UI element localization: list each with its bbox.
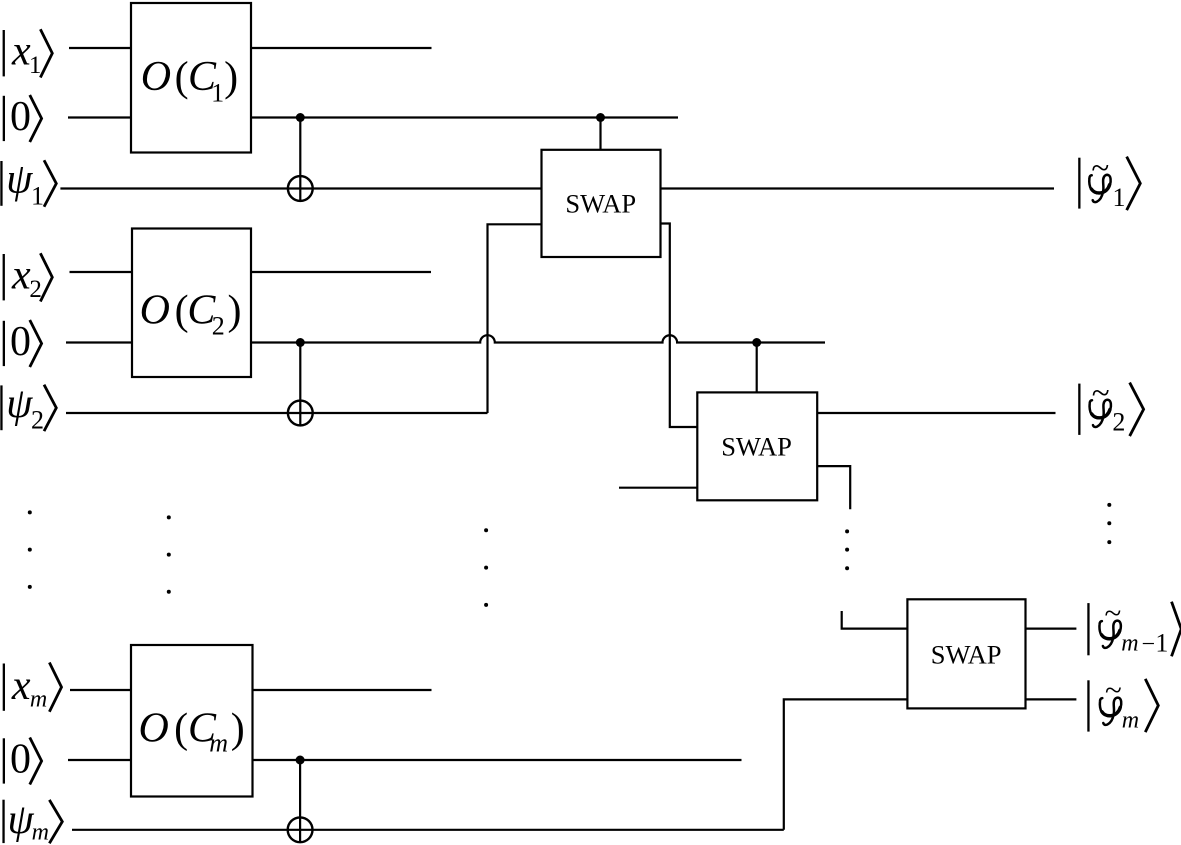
svg-text:ψ: ψ <box>8 797 35 843</box>
svg-text:1: 1 <box>211 79 224 108</box>
svg-text:m: m <box>209 729 228 758</box>
svg-text:−: − <box>1142 632 1156 658</box>
svg-text:1: 1 <box>1113 183 1126 212</box>
svg-text:SWAP: SWAP <box>931 639 1002 669</box>
svg-text:1: 1 <box>31 181 44 210</box>
svg-text:): ) <box>231 706 245 752</box>
svg-text:0: 0 <box>10 736 31 782</box>
svg-text:1: 1 <box>29 52 42 79</box>
svg-text:~: ~ <box>1105 595 1122 630</box>
svg-text:m: m <box>1121 631 1138 657</box>
svg-text:ψ: ψ <box>6 381 33 427</box>
svg-text:(: ( <box>174 706 188 752</box>
svg-text:2: 2 <box>31 406 44 435</box>
svg-text:O: O <box>139 706 169 752</box>
svg-text:x: x <box>11 663 31 709</box>
svg-text:O: O <box>140 287 170 333</box>
svg-text:~: ~ <box>1092 376 1110 412</box>
svg-text:2: 2 <box>1112 408 1125 437</box>
svg-text:m: m <box>32 819 49 845</box>
svg-text:2: 2 <box>29 276 42 303</box>
svg-text:): ) <box>224 55 238 101</box>
svg-text:SWAP: SWAP <box>721 432 792 462</box>
svg-text:ψ: ψ <box>6 156 33 202</box>
svg-text:0: 0 <box>10 319 31 365</box>
svg-text:~: ~ <box>1091 151 1109 187</box>
svg-text:m: m <box>1122 707 1139 733</box>
svg-text:~: ~ <box>1105 672 1122 707</box>
svg-text:SWAP: SWAP <box>565 189 636 219</box>
svg-text:): ) <box>228 288 242 334</box>
svg-text:1: 1 <box>1155 629 1168 658</box>
svg-text:x: x <box>11 252 31 298</box>
svg-text:2: 2 <box>212 311 225 340</box>
svg-text:(: ( <box>175 55 189 101</box>
svg-text:O: O <box>141 54 171 100</box>
svg-text:m: m <box>30 686 47 712</box>
svg-text:0: 0 <box>10 94 31 140</box>
